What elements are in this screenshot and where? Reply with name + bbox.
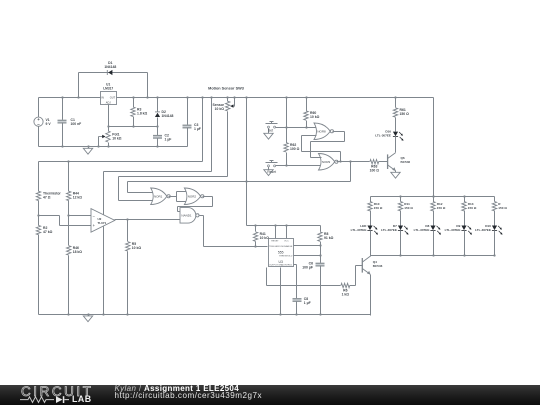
svg-text:NOR8: NOR8 xyxy=(317,130,326,134)
svg-text:LTL-307EE: LTL-307EE xyxy=(475,228,491,232)
svg-text:Motion Sensor SW3: Motion Sensor SW3 xyxy=(208,86,244,90)
svg-text:10 kΩ: 10 kΩ xyxy=(260,236,270,240)
svg-text:−: − xyxy=(37,122,40,127)
svg-text:100 nF: 100 nF xyxy=(71,122,82,126)
svg-text:150 Ω: 150 Ω xyxy=(374,206,383,210)
svg-text:LTL-307EE: LTL-307EE xyxy=(445,228,461,232)
svg-text:ADJ: ADJ xyxy=(106,101,112,105)
svg-text:LTL-307EE: LTL-307EE xyxy=(351,228,367,232)
svg-text:1 µF: 1 µF xyxy=(194,127,201,131)
svg-text:NOR2: NOR2 xyxy=(188,195,197,199)
svg-text:U3: U3 xyxy=(279,260,283,264)
svg-text:TL071: TL071 xyxy=(98,221,107,225)
svg-text:1.8 kΩ: 1.8 kΩ xyxy=(137,111,148,115)
svg-text:NOR9: NOR9 xyxy=(322,160,331,164)
svg-text:1 kΩ: 1 kΩ xyxy=(342,292,350,296)
svg-text:IN: IN xyxy=(101,95,104,99)
svg-text:RESET: RESET xyxy=(271,241,279,243)
svg-text:1N4148: 1N4148 xyxy=(162,114,174,118)
svg-text:NOR1: NOR1 xyxy=(154,195,163,199)
svg-text:18 kΩ: 18 kΩ xyxy=(73,250,83,254)
svg-text:91 kΩ: 91 kΩ xyxy=(324,236,334,240)
svg-text:Set: Set xyxy=(268,129,273,133)
svg-text:CONTROL: CONTROL xyxy=(282,265,293,267)
svg-text:47 kΩ: 47 kΩ xyxy=(43,230,53,234)
svg-text:100 Ω: 100 Ω xyxy=(370,168,380,172)
svg-text:10 kΩ: 10 kΩ xyxy=(112,136,122,140)
svg-text:100 pF: 100 pF xyxy=(302,265,313,269)
svg-text:10 kΩ: 10 kΩ xyxy=(215,107,225,111)
svg-text:150 Ω: 150 Ω xyxy=(400,112,410,116)
svg-text:Reset: Reset xyxy=(267,170,276,174)
svg-text:555: 555 xyxy=(278,250,284,254)
svg-text:NAND1: NAND1 xyxy=(181,214,192,218)
svg-text:10 kΩ: 10 kΩ xyxy=(132,246,142,250)
svg-text:150 Ω: 150 Ω xyxy=(498,206,507,210)
svg-text:OUTPUT: OUTPUT xyxy=(269,265,279,267)
svg-text:OUT: OUT xyxy=(110,95,116,99)
svg-text:LM317: LM317 xyxy=(103,87,113,91)
svg-text:BC546: BC546 xyxy=(373,264,383,268)
svg-text:1 µF: 1 µF xyxy=(304,301,311,305)
svg-text:VCC: VCC xyxy=(284,241,289,243)
svg-text:1 µF: 1 µF xyxy=(165,137,172,141)
svg-text:9 V: 9 V xyxy=(46,122,52,126)
svg-text:150 Ω: 150 Ω xyxy=(437,206,446,210)
svg-text:LTL-307EE: LTL-307EE xyxy=(414,228,430,232)
svg-text:LTL-307EE: LTL-307EE xyxy=(381,228,397,232)
svg-text:BC546: BC546 xyxy=(401,160,411,164)
svg-text:12 kΩ: 12 kΩ xyxy=(73,195,83,199)
svg-text:150 Ω: 150 Ω xyxy=(404,206,413,210)
svg-text:150 Ω: 150 Ω xyxy=(468,206,477,210)
svg-text:THRESHOLD: THRESHOLD xyxy=(279,255,293,257)
svg-text:LTL-307EE: LTL-307EE xyxy=(375,134,391,138)
svg-text:1N4148: 1N4148 xyxy=(104,65,116,69)
svg-text:DISCHARGE: DISCHARGE xyxy=(279,245,293,248)
svg-text:TRIGGER: TRIGGER xyxy=(269,246,279,248)
svg-text:100 Ω: 100 Ω xyxy=(290,147,300,151)
svg-text:10 kΩ: 10 kΩ xyxy=(310,115,320,119)
svg-text:47 Ω: 47 Ω xyxy=(43,195,51,199)
